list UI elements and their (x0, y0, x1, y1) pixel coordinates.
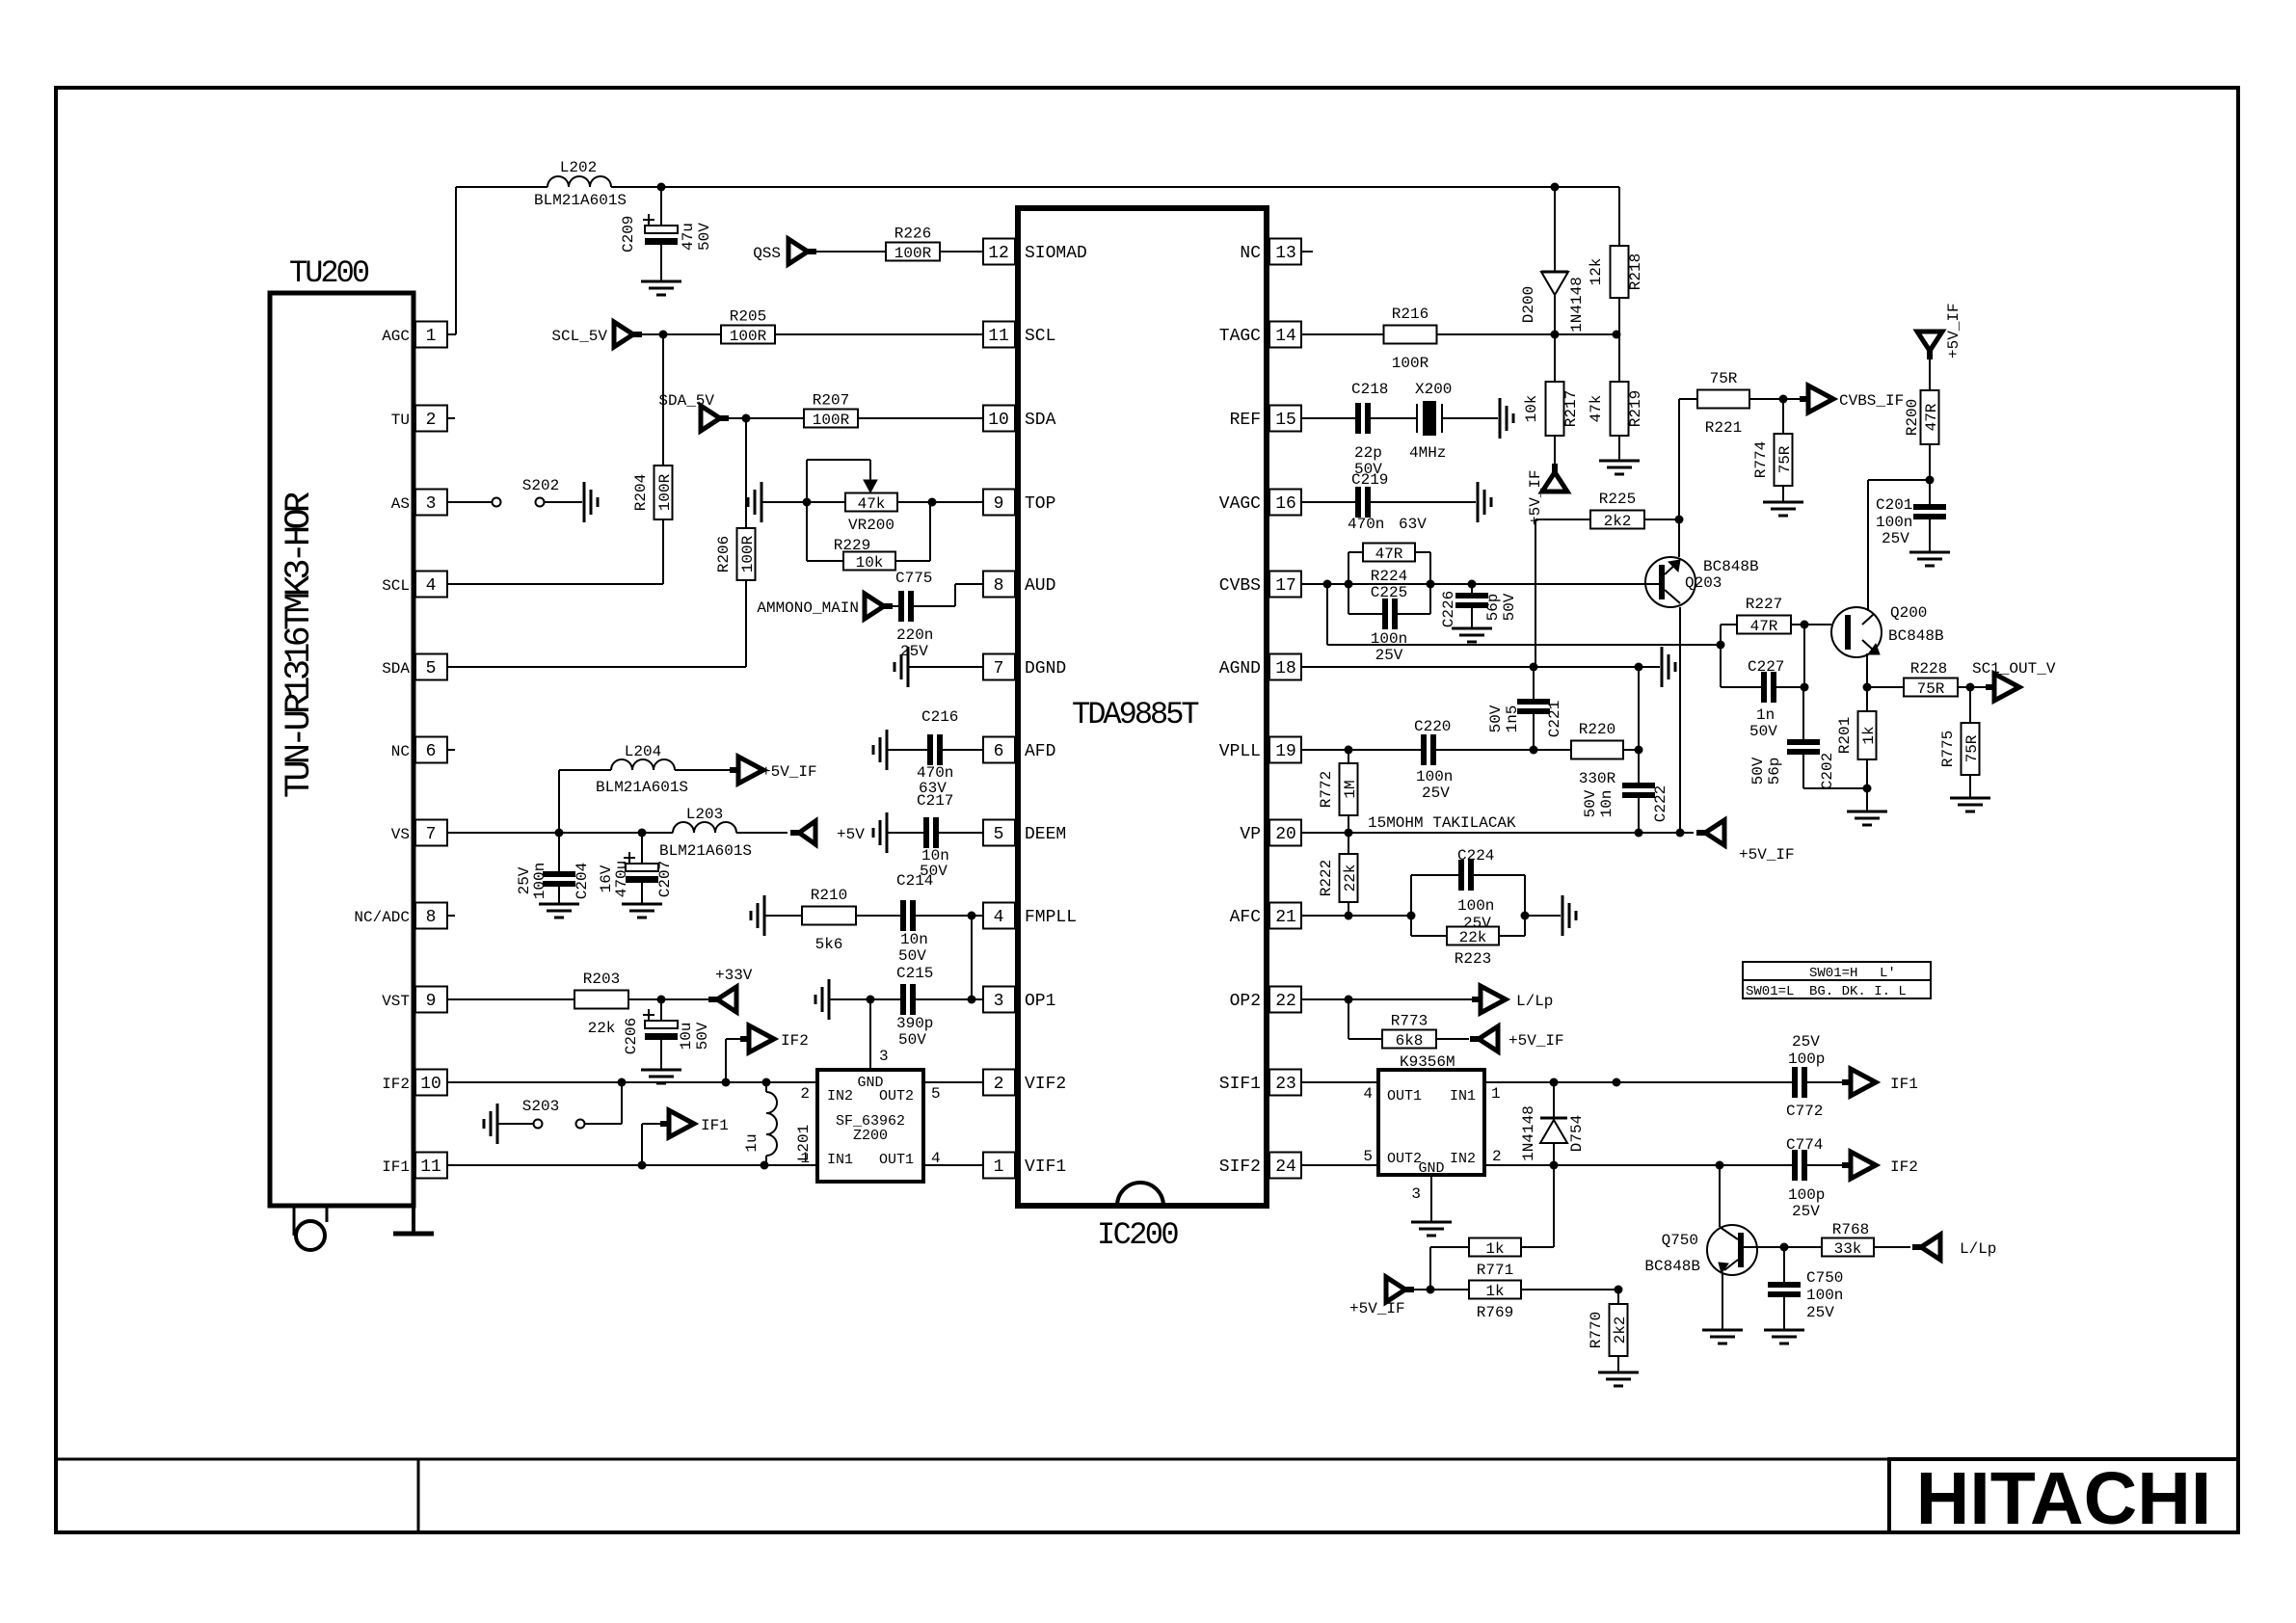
svg-text:TOP: TOP (1025, 494, 1055, 514)
svg-text:R224: R224 (1371, 568, 1407, 585)
svg-text:C201: C201 (1876, 496, 1912, 514)
svg-text:L': L' (1880, 966, 1896, 981)
svg-text:100p: 100p (1788, 1186, 1825, 1204)
svg-text:TUN-UR1316TMK3-HOR: TUN-UR1316TMK3-HOR (280, 492, 320, 798)
svg-text:AMMONO_MAIN: AMMONO_MAIN (757, 599, 859, 617)
svg-text:D754: D754 (1568, 1115, 1586, 1152)
svg-text:C206: C206 (623, 1018, 640, 1054)
svg-text:22p: 22p (1354, 444, 1382, 462)
svg-text:100n: 100n (1806, 1287, 1843, 1304)
svg-text:C225: C225 (1371, 584, 1407, 601)
svg-text:+5V_IF: +5V_IF (1349, 1300, 1405, 1317)
svg-text:50V: 50V (1501, 593, 1518, 621)
svg-text:2: 2 (994, 1075, 1004, 1094)
svg-text:OUT2: OUT2 (1387, 1151, 1422, 1167)
svg-text:BG. DK. I. L: BG. DK. I. L (1809, 984, 1907, 999)
svg-text:C226: C226 (1440, 591, 1457, 627)
svg-text:330R: 330R (1579, 770, 1616, 787)
svg-text:25V: 25V (1792, 1033, 1820, 1051)
svg-text:1k: 1k (1860, 726, 1878, 744)
svg-text:23: 23 (1275, 1075, 1296, 1094)
svg-text:SW01=H: SW01=H (1809, 966, 1857, 981)
svg-text:3: 3 (1411, 1185, 1421, 1203)
svg-text:47k: 47k (1588, 395, 1605, 423)
svg-text:X200: X200 (1415, 381, 1452, 398)
svg-text:100R: 100R (1392, 355, 1429, 372)
svg-text:BC848B: BC848B (1703, 558, 1759, 575)
svg-text:+33V: +33V (715, 967, 753, 984)
svg-text:R217: R217 (1562, 390, 1580, 427)
svg-text:OP1: OP1 (1025, 992, 1055, 1011)
svg-text:NC/ADC: NC/ADC (354, 909, 410, 926)
svg-text:1: 1 (994, 1157, 1004, 1177)
svg-text:DEEM: DEEM (1025, 825, 1066, 844)
svg-text:5: 5 (426, 659, 437, 678)
svg-text:25V: 25V (1806, 1304, 1834, 1321)
svg-text:100n: 100n (1876, 514, 1912, 531)
svg-text:C227: C227 (1748, 658, 1784, 676)
svg-text:10n: 10n (900, 931, 928, 948)
svg-text:QSS: QSS (753, 245, 781, 262)
svg-text:50V: 50V (1749, 757, 1767, 785)
svg-text:+5V_IF: +5V_IF (1527, 469, 1544, 525)
svg-text:100n: 100n (531, 863, 548, 899)
svg-text:L202: L202 (560, 159, 597, 176)
svg-text:+5V_IF: +5V_IF (1739, 846, 1795, 864)
svg-text:75R: 75R (1710, 370, 1738, 387)
svg-text:L/Lp: L/Lp (1960, 1240, 1996, 1258)
svg-text:C222: C222 (1652, 785, 1669, 822)
svg-text:R772: R772 (1318, 771, 1335, 808)
svg-text:47R: 47R (1750, 618, 1778, 635)
svg-text:11: 11 (420, 1157, 441, 1177)
svg-text:15MOHM TAKILACAK: 15MOHM TAKILACAK (1368, 814, 1516, 832)
svg-text:OUT1: OUT1 (879, 1152, 914, 1168)
svg-text:R218: R218 (1627, 253, 1644, 290)
svg-text:25V: 25V (1882, 530, 1909, 547)
svg-text:25V: 25V (1463, 915, 1491, 932)
svg-text:IN2: IN2 (827, 1088, 853, 1104)
svg-text:47R: 47R (1923, 403, 1940, 431)
svg-text:D200: D200 (1520, 286, 1537, 323)
svg-text:4: 4 (994, 908, 1004, 927)
svg-text:5: 5 (1363, 1148, 1373, 1165)
svg-text:14: 14 (1275, 327, 1296, 346)
svg-text:R200: R200 (1904, 399, 1921, 436)
svg-text:6: 6 (426, 742, 437, 761)
svg-text:CVBS: CVBS (1219, 576, 1261, 596)
svg-text:R204: R204 (632, 474, 650, 511)
svg-text:8: 8 (426, 908, 437, 927)
svg-text:13: 13 (1275, 244, 1296, 263)
svg-text:+5V_IF: +5V_IF (1945, 303, 1962, 359)
svg-text:100n: 100n (1416, 768, 1453, 785)
svg-text:IC200: IC200 (1097, 1217, 1178, 1253)
svg-text:100R: 100R (894, 245, 932, 262)
svg-text:TDA9885T: TDA9885T (1072, 697, 1198, 732)
svg-text:56p: 56p (1766, 758, 1783, 785)
svg-text:IF2: IF2 (781, 1032, 809, 1050)
svg-text:50V: 50V (898, 947, 926, 965)
svg-text:10k: 10k (1523, 395, 1540, 423)
svg-text:IF1: IF1 (382, 1158, 410, 1176)
svg-text:AS: AS (391, 495, 410, 513)
svg-text:SW01=L: SW01=L (1746, 984, 1794, 999)
svg-text:50V: 50V (898, 1031, 926, 1049)
svg-text:R222: R222 (1318, 860, 1335, 896)
svg-text:AFD: AFD (1025, 742, 1055, 761)
svg-text:R223: R223 (1455, 950, 1491, 968)
svg-text:HITACHI: HITACHI (1916, 1457, 2212, 1540)
svg-text:1: 1 (426, 327, 437, 346)
svg-text:C214: C214 (896, 872, 933, 890)
svg-text:50V: 50V (696, 223, 713, 251)
svg-text:R216: R216 (1392, 306, 1428, 323)
svg-text:SCL: SCL (382, 577, 410, 595)
svg-text:SCL: SCL (1025, 327, 1055, 346)
svg-text:19: 19 (1275, 742, 1296, 761)
svg-text:5: 5 (994, 825, 1004, 844)
svg-text:SIF2: SIF2 (1219, 1157, 1261, 1177)
svg-text:IN1: IN1 (827, 1152, 853, 1168)
svg-text:OUT2: OUT2 (879, 1088, 914, 1104)
svg-text:1k: 1k (1485, 1283, 1504, 1300)
svg-text:R769: R769 (1477, 1304, 1513, 1321)
svg-text:R229: R229 (834, 537, 870, 554)
svg-text:DGND: DGND (1025, 659, 1066, 678)
svg-text:4MHz: 4MHz (1409, 444, 1446, 462)
svg-text:C216: C216 (921, 708, 958, 726)
svg-text:16: 16 (1275, 494, 1296, 514)
svg-text:NC: NC (1240, 244, 1261, 263)
svg-text:100n: 100n (1457, 897, 1494, 915)
svg-text:22k: 22k (1342, 865, 1359, 892)
svg-text:R203: R203 (583, 971, 620, 988)
svg-text:SCL_5V: SCL_5V (551, 328, 607, 345)
svg-text:R228: R228 (1910, 660, 1947, 678)
svg-text:R773: R773 (1391, 1013, 1428, 1030)
svg-text:OUT1: OUT1 (1387, 1088, 1422, 1104)
svg-text:L203: L203 (686, 806, 723, 823)
svg-text:R205: R205 (730, 308, 766, 326)
svg-text:REF: REF (1230, 411, 1261, 430)
svg-text:63V: 63V (1399, 516, 1427, 533)
svg-text:R219: R219 (1627, 390, 1644, 427)
svg-text:1u: 1u (743, 1133, 761, 1152)
svg-text:20: 20 (1275, 825, 1296, 844)
svg-text:VST: VST (382, 993, 410, 1010)
svg-text:C224: C224 (1457, 847, 1494, 865)
svg-text:75R: 75R (1776, 445, 1794, 473)
svg-text:FMPLL: FMPLL (1025, 908, 1077, 927)
svg-text:+5V_IF: +5V_IF (1508, 1032, 1564, 1050)
svg-text:1n: 1n (1756, 706, 1775, 724)
svg-text:R774: R774 (1752, 441, 1770, 478)
svg-text:C204: C204 (574, 863, 591, 899)
svg-text:1M: 1M (1342, 780, 1359, 798)
svg-text:C221: C221 (1546, 701, 1563, 737)
svg-text:AGND: AGND (1219, 659, 1261, 678)
svg-text:SDA: SDA (382, 660, 410, 678)
svg-text:47R: 47R (1375, 545, 1403, 563)
svg-text:390p: 390p (896, 1015, 933, 1032)
svg-text:GND: GND (1418, 1160, 1444, 1177)
svg-text:R225: R225 (1599, 491, 1636, 508)
svg-text:IN2: IN2 (1450, 1151, 1476, 1167)
svg-text:21: 21 (1275, 908, 1296, 927)
svg-text:22: 22 (1275, 992, 1296, 1011)
svg-text:5k6: 5k6 (815, 936, 843, 953)
svg-text:3: 3 (879, 1048, 889, 1065)
svg-text:1N4148: 1N4148 (1520, 1105, 1537, 1161)
svg-text:IF2: IF2 (1890, 1158, 1918, 1176)
svg-text:Q750: Q750 (1662, 1232, 1698, 1249)
svg-text:C219: C219 (1351, 471, 1388, 489)
svg-text:17: 17 (1275, 576, 1296, 596)
svg-text:AUD: AUD (1025, 576, 1055, 596)
svg-text:C220: C220 (1414, 718, 1451, 735)
svg-text:75R: 75R (1917, 680, 1945, 698)
svg-text:R227: R227 (1746, 596, 1782, 613)
svg-text:R770: R770 (1588, 1312, 1605, 1348)
svg-text:SC1_OUT_V: SC1_OUT_V (1972, 660, 2056, 678)
svg-text:+5V_IF: +5V_IF (761, 763, 817, 781)
svg-text:1n5: 1n5 (1504, 705, 1521, 733)
svg-text:+5V: +5V (837, 826, 865, 843)
svg-text:100R: 100R (813, 412, 850, 429)
svg-text:K9356M: K9356M (1400, 1053, 1455, 1071)
svg-text:24: 24 (1275, 1157, 1296, 1177)
svg-text:TU200: TU200 (289, 255, 369, 291)
svg-text:L/Lp: L/Lp (1516, 993, 1553, 1010)
svg-text:50V: 50V (694, 1022, 711, 1050)
svg-text:SDA: SDA (1025, 411, 1056, 430)
svg-text:12: 12 (988, 244, 1009, 263)
svg-text:33k: 33k (1834, 1240, 1862, 1258)
svg-text:56p: 56p (1484, 594, 1502, 622)
svg-text:C207: C207 (656, 861, 674, 897)
svg-text:BLM21A601S: BLM21A601S (534, 192, 627, 209)
svg-text:R775: R775 (1939, 731, 1957, 767)
svg-text:VS: VS (391, 826, 410, 843)
svg-text:R207: R207 (813, 392, 849, 410)
svg-text:3: 3 (994, 992, 1004, 1011)
svg-text:2k2: 2k2 (1612, 1317, 1629, 1344)
svg-text:S202: S202 (522, 477, 559, 494)
svg-text:4: 4 (1363, 1085, 1373, 1103)
svg-text:22k: 22k (588, 1020, 616, 1037)
svg-text:VR200: VR200 (848, 517, 894, 534)
svg-text:C202: C202 (1819, 753, 1836, 789)
svg-text:100R: 100R (730, 328, 767, 345)
svg-text:2: 2 (800, 1085, 810, 1103)
svg-text:75R: 75R (1963, 734, 1981, 762)
svg-text:220n: 220n (896, 626, 933, 644)
svg-text:R221: R221 (1705, 419, 1742, 437)
svg-text:VIF2: VIF2 (1025, 1075, 1066, 1094)
svg-text:AGC: AGC (382, 328, 410, 345)
svg-text:1k: 1k (1485, 1240, 1504, 1258)
svg-text:10: 10 (420, 1075, 441, 1094)
svg-text:L204: L204 (625, 743, 661, 760)
svg-text:CVBS_IF: CVBS_IF (1839, 392, 1904, 410)
svg-text:10n: 10n (1598, 790, 1615, 818)
svg-text:10u: 10u (678, 1023, 695, 1051)
svg-text:9: 9 (994, 494, 1004, 514)
svg-text:IN1: IN1 (1450, 1088, 1476, 1104)
svg-text:BLM21A601S: BLM21A601S (596, 779, 688, 796)
svg-text:SIF1: SIF1 (1219, 1075, 1261, 1094)
svg-text:TU: TU (391, 412, 410, 429)
svg-text:IF1: IF1 (701, 1117, 729, 1134)
svg-text:6: 6 (994, 742, 1004, 761)
svg-text:50V: 50V (1749, 723, 1777, 740)
svg-text:AFC: AFC (1230, 908, 1262, 927)
svg-text:R206: R206 (715, 536, 733, 572)
svg-text:47u: 47u (680, 223, 697, 251)
svg-text:BC848B: BC848B (1644, 1258, 1700, 1275)
svg-text:C750: C750 (1806, 1269, 1843, 1287)
svg-text:7: 7 (426, 825, 437, 844)
svg-text:VAGC: VAGC (1219, 494, 1261, 514)
svg-text:Z200: Z200 (853, 1128, 888, 1144)
svg-text:100p: 100p (1788, 1051, 1825, 1068)
svg-text:C209: C209 (620, 216, 637, 253)
svg-text:10k: 10k (856, 554, 884, 572)
svg-text:1: 1 (1491, 1085, 1501, 1103)
svg-text:50V: 50V (1487, 705, 1505, 732)
svg-text:470n: 470n (1348, 516, 1384, 533)
svg-text:2: 2 (1492, 1148, 1502, 1165)
svg-text:6k8: 6k8 (1396, 1032, 1424, 1050)
svg-text:VP: VP (1240, 825, 1261, 844)
svg-text:R210: R210 (811, 887, 847, 904)
svg-text:25V: 25V (1375, 647, 1403, 664)
svg-text:VPLL: VPLL (1219, 742, 1261, 761)
svg-text:11: 11 (988, 327, 1009, 346)
svg-text:BC848B: BC848B (1888, 627, 1944, 645)
svg-text:R768: R768 (1832, 1221, 1869, 1238)
svg-text:10: 10 (988, 411, 1009, 430)
svg-text:C217: C217 (917, 792, 953, 810)
svg-text:9: 9 (426, 992, 437, 1011)
svg-text:8: 8 (994, 576, 1004, 596)
svg-text:IF2: IF2 (382, 1076, 410, 1093)
svg-text:25V: 25V (1422, 785, 1450, 802)
svg-text:2k2: 2k2 (1604, 513, 1632, 530)
svg-text:25V: 25V (900, 643, 928, 660)
svg-text:Q200: Q200 (1890, 604, 1927, 622)
svg-text:100R: 100R (656, 473, 674, 511)
svg-text:OP2: OP2 (1230, 992, 1261, 1011)
svg-text:SIOMAD: SIOMAD (1025, 244, 1087, 263)
svg-text:S203: S203 (522, 1098, 559, 1115)
svg-text:BLM21A601S: BLM21A601S (659, 842, 752, 860)
svg-text:C215: C215 (896, 965, 933, 982)
svg-text:470u: 470u (613, 861, 630, 897)
svg-text:R771: R771 (1477, 1262, 1513, 1279)
svg-text:4: 4 (426, 576, 437, 596)
svg-text:1N4148: 1N4148 (1568, 277, 1586, 333)
svg-text:15: 15 (1275, 411, 1296, 430)
svg-text:12k: 12k (1588, 258, 1605, 286)
svg-text:25V: 25V (1792, 1203, 1820, 1220)
svg-text:7: 7 (994, 659, 1004, 678)
svg-text:R226: R226 (894, 226, 931, 243)
svg-text:TAGC: TAGC (1219, 327, 1261, 346)
svg-text:100R: 100R (739, 535, 757, 572)
svg-text:47k: 47k (858, 495, 886, 513)
svg-text:IF1: IF1 (1890, 1076, 1918, 1093)
svg-text:R201: R201 (1836, 717, 1854, 754)
svg-text:18: 18 (1275, 659, 1296, 678)
svg-text:2: 2 (426, 411, 437, 430)
svg-text:C774: C774 (1786, 1136, 1823, 1154)
svg-text:5: 5 (931, 1085, 941, 1103)
svg-text:50V: 50V (1582, 789, 1599, 817)
svg-text:L201: L201 (795, 1125, 813, 1161)
svg-text:VIF1: VIF1 (1025, 1157, 1066, 1177)
svg-text:R220: R220 (1579, 721, 1615, 738)
svg-text:Q203: Q203 (1685, 574, 1722, 592)
svg-text:C218: C218 (1351, 381, 1388, 398)
svg-text:C772: C772 (1786, 1103, 1823, 1120)
svg-text:NC: NC (391, 743, 410, 760)
svg-text:3: 3 (426, 494, 437, 514)
svg-text:C775: C775 (895, 570, 932, 587)
